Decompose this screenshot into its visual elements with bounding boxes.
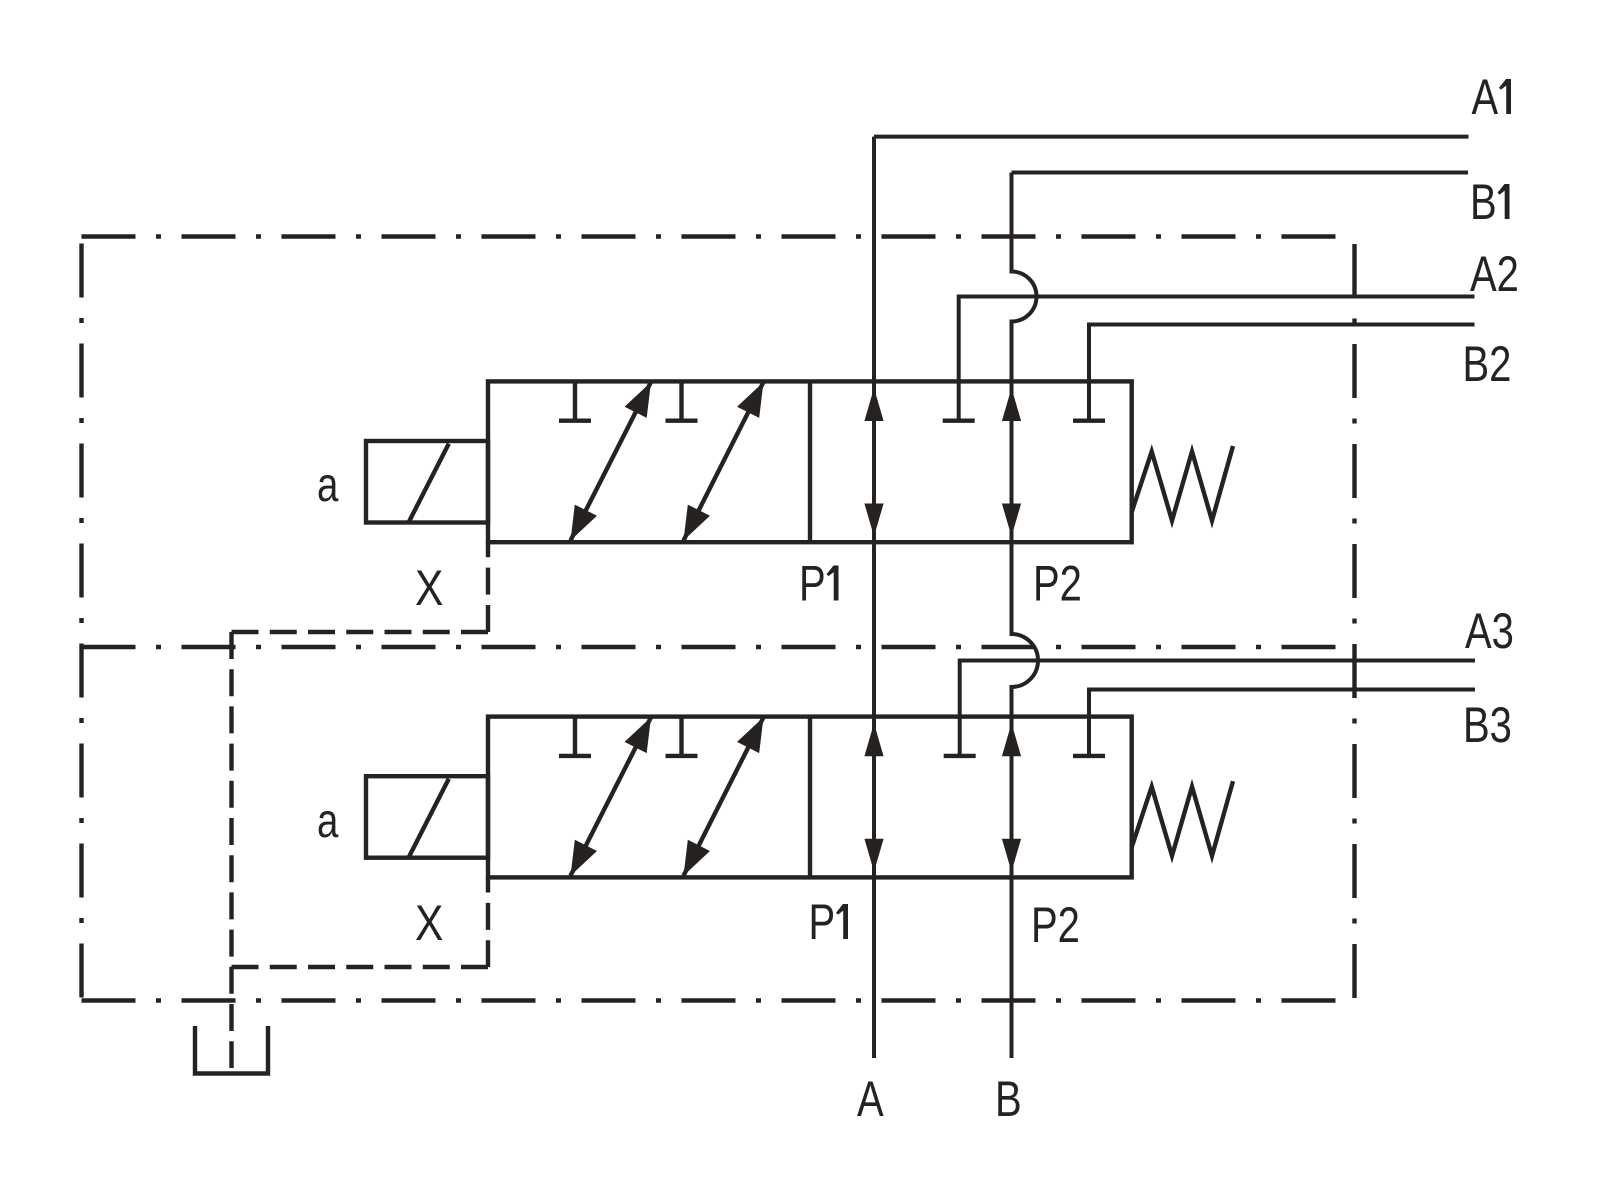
valve V2 position divider bbox=[808, 717, 812, 878]
svg-text:A: A bbox=[857, 1071, 884, 1127]
valve V2 body bbox=[488, 717, 1132, 878]
valve V2 diagonal flow arrow 2 bbox=[672, 712, 774, 882]
wire B2 with riser to valve 1 port bbox=[1089, 325, 1475, 421]
valve V1 return spring bbox=[1132, 446, 1233, 521]
valve V1 blocked port T1 bbox=[559, 381, 591, 420]
svg-text:B2: B2 bbox=[1463, 336, 1512, 392]
valve V2 solenoid a bbox=[366, 776, 488, 858]
valve V1 vertical flow arrows on line B bbox=[1002, 388, 1021, 537]
wire B vertical (port B riser, bridges over A2 and A3) bbox=[1012, 173, 1039, 1059]
border top side bbox=[82, 234, 1355, 238]
wire A vertical (port A riser) bbox=[872, 137, 876, 1058]
svg-text:B: B bbox=[1470, 174, 1497, 230]
pilot line X2 (dashed) bbox=[486, 878, 490, 968]
svg-text:a: a bbox=[317, 795, 339, 848]
valve V2 blocked port T1 bbox=[559, 717, 591, 756]
wire B1 horizontal bbox=[1012, 171, 1469, 175]
wire B3 with riser to valve 2 port bbox=[1089, 690, 1475, 756]
valve V1 vertical flow arrows on line A bbox=[864, 388, 883, 537]
svg-text:A2: A2 bbox=[1470, 246, 1519, 302]
valve V1 position divider bbox=[808, 381, 812, 542]
valve V2 return spring bbox=[1132, 781, 1233, 856]
svg-text:B: B bbox=[995, 1071, 1022, 1127]
valve V1 diagonal flow arrow 2 bbox=[672, 376, 774, 546]
svg-text:X: X bbox=[415, 560, 443, 616]
valve V1 blocked port T2 bbox=[666, 381, 698, 420]
pilot line X2 horizontal segment (dashed) bbox=[232, 965, 489, 969]
pilot drain line to tank (dashed) bbox=[229, 632, 233, 1068]
svg-text:P: P bbox=[809, 894, 836, 950]
wire A2 with riser to valve 1 port bbox=[959, 297, 1475, 421]
border bottom side bbox=[82, 998, 1355, 1002]
enclosure section 1 border (dash-dot) bbox=[82, 237, 1355, 1001]
wire A1 horizontal bbox=[874, 135, 1469, 139]
blocked port T (A3) crossbar bbox=[944, 754, 976, 758]
valve V1 solenoid a bbox=[366, 441, 488, 523]
pilot line X1 (dashed) bbox=[486, 542, 490, 632]
pilot line X1 horizontal segment (dashed) bbox=[232, 630, 489, 634]
blocked port T (B2) crossbar bbox=[1073, 419, 1105, 423]
svg-text:X: X bbox=[415, 895, 443, 951]
svg-text:P2: P2 bbox=[1031, 897, 1080, 953]
blocked port T (A2) crossbar bbox=[943, 419, 975, 423]
border right side bbox=[1352, 244, 1356, 1001]
valve V1 diagonal flow arrow 1 bbox=[559, 376, 662, 546]
valve V2 diagonal flow arrow 1 bbox=[559, 712, 662, 882]
valve V2 vertical flow arrows on line B bbox=[1002, 723, 1021, 872]
wire A3 with riser to valve 2 port bbox=[960, 661, 1475, 756]
blocked port T (B3) crossbar bbox=[1073, 754, 1105, 758]
enclosure section divider (dash-dot) bbox=[82, 645, 1355, 649]
valve V2 blocked port T2 bbox=[666, 717, 698, 756]
tank symbol bbox=[195, 1026, 268, 1074]
svg-text:A: A bbox=[1472, 69, 1499, 125]
svg-text:a: a bbox=[317, 459, 339, 512]
valve V1 body bbox=[488, 381, 1132, 542]
svg-text:B3: B3 bbox=[1463, 697, 1512, 753]
svg-text:P2: P2 bbox=[1033, 555, 1082, 611]
border left side bbox=[79, 244, 83, 1001]
valve V2 vertical flow arrows on line A bbox=[864, 723, 883, 872]
svg-text:P: P bbox=[799, 555, 826, 611]
svg-text:A3: A3 bbox=[1465, 603, 1514, 659]
